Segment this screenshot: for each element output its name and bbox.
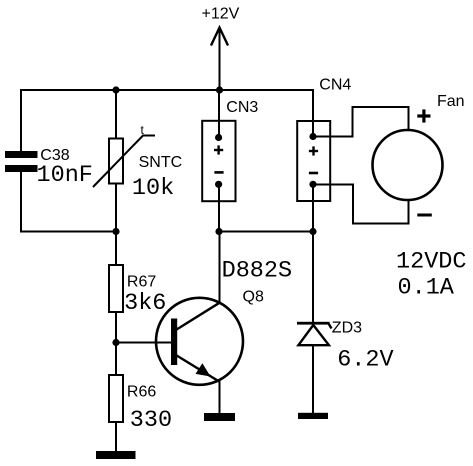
zener diode ZD3: [297, 322, 332, 345]
wire base node to R66: [115, 342, 117, 376]
svg-text:10k: 10k: [132, 175, 174, 202]
wire ZD3 bottom lead: [312, 345, 314, 414]
connector CN4: [297, 121, 330, 201]
wire fan minus drop: [352, 184, 354, 224]
svg-text:SNTC: SNTC: [139, 154, 183, 171]
wire ZD3 top lead: [312, 231, 314, 322]
resistor R67: [109, 265, 123, 312]
svg-text:0.1A: 0.1A: [398, 275, 455, 302]
wire bottom-left horizontal (C38 to SNTC node): [20, 231, 117, 233]
svg-text:D882S: D882S: [222, 258, 293, 285]
ground (ZD3): [298, 413, 328, 419]
wire base horizontal to Q8: [115, 342, 172, 344]
connector CN3: [202, 121, 235, 201]
wire CN3 top lead: [218, 89, 220, 137]
resistor R66: [109, 375, 123, 422]
wire top rail corner into CN4: [312, 89, 314, 137]
wire +12V stem: [219, 30, 221, 90]
svg-text:CN3: CN3: [226, 99, 258, 116]
svg-text:R67: R67: [127, 274, 156, 291]
power arrow +12V: [211, 28, 228, 46]
ground (emitter of Q8): [204, 413, 235, 421]
thermistor SNTC: [93, 136, 155, 188]
svg-text:3k6: 3k6: [124, 290, 166, 317]
fan minus terminal mark: [417, 214, 432, 217]
wire SNTC top lead: [115, 89, 117, 139]
wire R67 to base node: [115, 312, 117, 344]
wire collector lead: [219, 231, 221, 303]
wire emitter lead: [219, 381, 221, 415]
svg-text:6.2V: 6.2V: [337, 347, 393, 374]
node: SNTC bottom / R67 junction: [112, 228, 119, 235]
wire fan plus riser: [352, 107, 354, 138]
wire R66 to ground: [115, 422, 117, 453]
wire CN4 bottom lead: [312, 185, 314, 233]
svg-text:Fan: Fan: [437, 93, 465, 110]
wire CN3 bottom lead: [218, 185, 220, 233]
svg-text:ZD3: ZD3: [332, 320, 362, 337]
fan plus terminal mark: [417, 109, 430, 122]
wire fan bottom riser: [408, 199, 410, 225]
capacitor C38: [5, 151, 38, 172]
fan motor M1: [373, 130, 443, 200]
node: R67 / R66 / base junction: [112, 339, 119, 346]
wire SNTC bottom lead: [115, 183, 117, 232]
svg-text:CN4: CN4: [319, 77, 351, 94]
svg-text:R66: R66: [127, 384, 156, 401]
svg-text:330: 330: [130, 407, 172, 434]
wire C38 bottom lead: [20, 172, 22, 232]
wire CN4 plus to fan (horizontal): [313, 136, 353, 138]
node: top rail / SNTC junction: [112, 86, 119, 93]
svg-text:Q8: Q8: [243, 288, 264, 305]
node: top rail / CN3 junction: [216, 86, 223, 93]
svg-text:10nF: 10nF: [37, 162, 93, 189]
wire node-A to R67: [115, 231, 117, 266]
ground (left, below R66): [96, 451, 136, 459]
wire fan bottom horizontal: [352, 223, 409, 225]
transistor Q8: [156, 298, 243, 385]
svg-text:12VDC: 12VDC: [396, 249, 467, 276]
wire mid rail (CN3 node to ZD3 node): [219, 231, 313, 233]
wire CN4 minus to fan (horizontal): [313, 184, 353, 186]
svg-text:+12V: +12V: [202, 6, 240, 23]
node: CN3 bottom / collector junction: [215, 228, 222, 235]
wire top rail horizontal (+12V net): [21, 89, 313, 91]
node: CN4 bottom / ZD3 junction: [309, 228, 316, 235]
wire fan top drop: [408, 106, 410, 131]
wire fan top horizontal: [352, 106, 409, 108]
wire C38 top lead: [20, 89, 22, 151]
